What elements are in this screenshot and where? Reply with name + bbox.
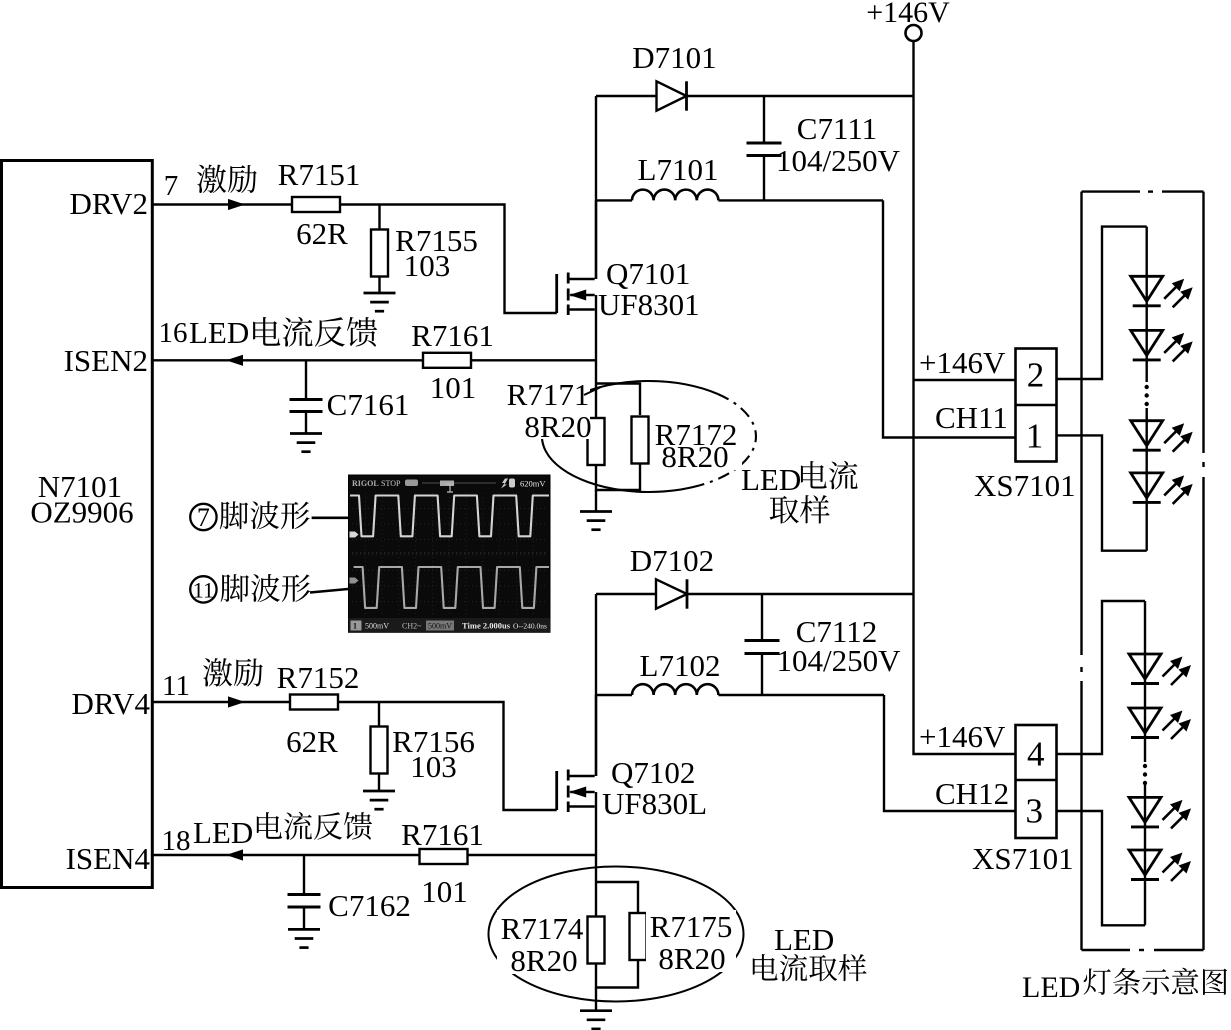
LED D3 string1 xyxy=(1131,421,1163,446)
svg-text:R7175: R7175 xyxy=(650,909,733,944)
connector XS7101 CH11 xyxy=(1016,349,1057,462)
label 电流反馈 2 xyxy=(257,812,282,839)
wire R7151 to gate jog xyxy=(340,205,557,314)
svg-text:3: 3 xyxy=(1026,792,1044,831)
wire ISEN2 feedback line xyxy=(152,359,596,361)
label 激励 2 xyxy=(203,658,232,686)
resistor R7152 62R xyxy=(290,695,338,710)
capacitor C7112 104/250V xyxy=(761,594,763,641)
svg-text:DRV4: DRV4 xyxy=(72,686,151,721)
resistor R7171 8R20 xyxy=(588,418,605,465)
label pin11 waveform xyxy=(190,576,216,602)
svg-text:R7152: R7152 xyxy=(277,660,360,695)
capacitor C7162 xyxy=(303,855,305,894)
svg-text:+146V: +146V xyxy=(919,719,1006,754)
wire sense top bar 2 xyxy=(596,882,638,913)
wire pin1 to LED bar1 return xyxy=(1056,435,1147,550)
wire Q7101 source down xyxy=(595,295,597,384)
svg-text:R7174: R7174 xyxy=(501,911,584,946)
resistor R7151 62R xyxy=(292,197,340,212)
svg-text:R7171: R7171 xyxy=(507,377,590,412)
svg-text:C7161: C7161 xyxy=(327,387,410,422)
svg-text:8R20: 8R20 xyxy=(661,439,728,474)
svg-text:7: 7 xyxy=(164,170,179,202)
resistor R7161b 101 xyxy=(420,849,468,864)
svg-text:CH12: CH12 xyxy=(935,776,1009,811)
wire drain node vertical 2 xyxy=(595,594,597,776)
svg-text:104/250V: 104/250V xyxy=(777,643,902,678)
dots string2 xyxy=(1143,764,1147,768)
svg-text:16: 16 xyxy=(159,317,188,349)
svg-text:LED: LED xyxy=(193,815,253,850)
IC N7101 OZ9906 xyxy=(2,161,153,888)
svg-text:ISEN4: ISEN4 xyxy=(66,841,151,876)
ellipse LED current sample 1 xyxy=(542,381,718,492)
svg-text:1: 1 xyxy=(1026,417,1044,456)
ground Q7101 source xyxy=(580,510,612,513)
transistor Q7102 UF830L xyxy=(555,771,558,810)
oscilloscope screenshot xyxy=(349,475,551,632)
LED string 2 xyxy=(1144,601,1146,925)
svg-text:8R20: 8R20 xyxy=(510,943,577,978)
wire CH11 from L7101 xyxy=(883,200,1015,437)
inductor L7102 xyxy=(632,684,718,695)
label 激励 xyxy=(197,165,226,193)
dots string1 xyxy=(1145,385,1149,389)
wire sense bottom bar xyxy=(596,464,640,490)
svg-text:CH11: CH11 xyxy=(935,400,1008,435)
svg-text:CH2~: CH2~ xyxy=(402,622,422,631)
transistor Q7101 UF8301 xyxy=(555,274,558,313)
svg-text:DRV2: DRV2 xyxy=(70,186,148,221)
LED D1 string2 xyxy=(1129,654,1161,679)
wire DRV4 pin 11 to gate of Q7102 xyxy=(152,701,289,703)
diode D7102 xyxy=(656,579,687,608)
svg-text:101: 101 xyxy=(430,370,477,405)
resistor R7175 8R20 xyxy=(630,913,647,960)
ground R7174 xyxy=(580,1009,612,1012)
svg-text:500mV: 500mV xyxy=(428,622,452,631)
wire Q7102 source down xyxy=(595,792,597,882)
svg-text:UF830L: UF830L xyxy=(602,786,707,821)
node +146V terminal xyxy=(906,25,922,41)
svg-text:L7101: L7101 xyxy=(638,152,719,187)
LED D3 string2 xyxy=(1129,797,1161,822)
wire R7152 to gate jog xyxy=(338,702,557,810)
svg-text:7: 7 xyxy=(197,503,210,532)
svg-text:1: 1 xyxy=(353,622,357,631)
wire lower rail xyxy=(596,593,914,595)
svg-text:L7102: L7102 xyxy=(640,648,721,683)
svg-text:UF8301: UF8301 xyxy=(598,287,700,322)
svg-text:XS7101: XS7101 xyxy=(974,468,1076,503)
svg-text:R7151: R7151 xyxy=(278,157,361,192)
svg-text:R7161: R7161 xyxy=(411,318,494,353)
svg-text:D7101: D7101 xyxy=(632,40,716,75)
wire inductor branch xyxy=(596,199,883,201)
wire ISEN4 feedback line xyxy=(152,854,596,856)
resistor R7172 8R20 xyxy=(632,417,649,464)
svg-text:LED: LED xyxy=(1022,971,1080,1004)
svg-text:18: 18 xyxy=(162,825,191,857)
svg-text:D7102: D7102 xyxy=(630,543,714,578)
svg-text:Time 2.000us: Time 2.000us xyxy=(462,621,511,631)
ground C7162 xyxy=(288,928,320,931)
wire to ground xyxy=(595,490,597,512)
svg-text:C7111: C7111 xyxy=(797,111,877,146)
svg-text:ISEN2: ISEN2 xyxy=(64,343,148,378)
wire Q7102 drain up xyxy=(595,695,597,776)
svg-text:LED: LED xyxy=(741,462,801,497)
svg-text:11: 11 xyxy=(193,578,214,603)
svg-text:62R: 62R xyxy=(286,724,338,759)
wire drain node vertical xyxy=(595,96,597,279)
svg-text:C7162: C7162 xyxy=(328,888,411,923)
wire +146V rail xyxy=(914,41,1016,754)
svg-text:LED: LED xyxy=(189,315,249,350)
wire DRV2 pin 7 to gate of Q7101 xyxy=(152,203,292,205)
wire to ground 2 xyxy=(595,988,597,1011)
connector XS7101 CH12 xyxy=(1016,725,1057,838)
diode D7101 xyxy=(657,81,687,110)
capacitor C7111 104/250V xyxy=(763,96,765,143)
ground C7161 xyxy=(290,432,322,435)
resistor R7161 101 xyxy=(423,353,471,368)
svg-text:O--240.0ns: O--240.0ns xyxy=(513,622,547,631)
svg-text:103: 103 xyxy=(410,749,457,784)
ground R7156 xyxy=(363,790,395,793)
svg-text:OZ9906: OZ9906 xyxy=(30,495,133,530)
svg-text:LED: LED xyxy=(774,922,834,957)
svg-text:500mV: 500mV xyxy=(365,622,389,631)
resistor R7174 8R20 xyxy=(588,917,605,964)
svg-text:STOP: STOP xyxy=(381,479,401,488)
LED bar outline (dash-dot continuation) xyxy=(1082,190,1204,192)
svg-text:101: 101 xyxy=(421,874,468,909)
svg-text:Q7102: Q7102 xyxy=(611,755,695,790)
LED D4 string1 xyxy=(1131,473,1163,498)
svg-text:+146V: +146V xyxy=(919,345,1006,380)
svg-text:4: 4 xyxy=(1027,735,1045,774)
svg-text:62R: 62R xyxy=(296,216,348,251)
LED D1 string1 xyxy=(1131,276,1163,301)
wire sense bottom bar 2 xyxy=(596,961,638,988)
ellipse LED current sample 2 xyxy=(489,867,744,1002)
svg-text:XS7101: XS7101 xyxy=(972,841,1074,876)
wire pin3 to LED bar2 return xyxy=(1056,811,1145,925)
svg-text:11: 11 xyxy=(162,670,190,702)
wire CH12 from L7102 xyxy=(884,695,1015,811)
svg-text:+146V: +146V xyxy=(866,0,950,29)
label pin7 waveform xyxy=(190,504,216,530)
wire Q7101 drain up xyxy=(595,200,597,279)
svg-text:2: 2 xyxy=(1027,356,1045,395)
svg-text:R7161: R7161 xyxy=(401,817,484,852)
wire pin2 feed xyxy=(914,379,1016,381)
wire pin4 to LED bar2 xyxy=(1056,601,1145,754)
resistor R7155 103 xyxy=(378,205,380,231)
svg-text:8R20: 8R20 xyxy=(658,941,725,976)
LED D2 string1 xyxy=(1131,330,1163,355)
inductor L7101 xyxy=(632,190,718,201)
svg-text:RIGOL: RIGOL xyxy=(352,479,379,488)
wire top rail xyxy=(596,95,914,97)
LED D4 string2 xyxy=(1129,850,1161,875)
LED string 1 xyxy=(1145,227,1147,551)
svg-text:620mV: 620mV xyxy=(520,479,546,489)
LED D2 string2 xyxy=(1129,708,1161,733)
wire sense top bar xyxy=(596,384,640,416)
wire inductor branch 2 xyxy=(596,694,884,696)
svg-text:8R20: 8R20 xyxy=(524,409,591,444)
svg-text:104/250V: 104/250V xyxy=(776,143,901,178)
capacitor C7161 xyxy=(305,360,307,399)
svg-text:103: 103 xyxy=(404,248,451,283)
svg-text:Q7101: Q7101 xyxy=(606,256,690,291)
wire pin2 to LED bar1 xyxy=(1056,227,1147,379)
resistor R7156 103 xyxy=(378,702,380,727)
label 电流反馈 xyxy=(253,317,280,346)
ground R7155 xyxy=(364,292,396,295)
